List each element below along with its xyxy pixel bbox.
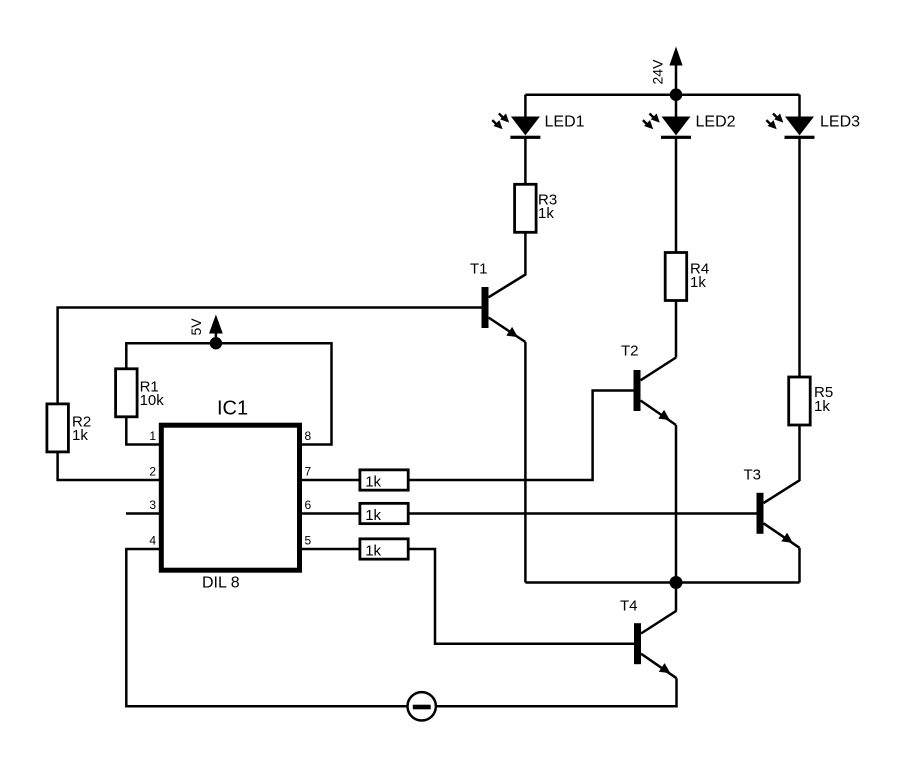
svg-text:3: 3 (149, 498, 156, 512)
wire T4 emitter to 0V (436, 678, 677, 706)
svg-text:LED1: LED1 (545, 114, 585, 131)
resistor R1 (116, 369, 138, 417)
LED LED1 (492, 114, 540, 139)
wire pin7 stub (298, 479, 360, 482)
transistor T1 (482, 275, 526, 343)
resistor R3 (515, 184, 537, 232)
svg-text:4: 4 (149, 534, 156, 548)
wire LED1 anode (524, 95, 527, 117)
resistor R5 (789, 377, 811, 425)
LED LED2 (643, 114, 691, 139)
wire T1 emitter down (524, 342, 527, 583)
wire pin6 stub (298, 512, 360, 515)
transistor T4 (634, 611, 677, 679)
svg-text:1k: 1k (538, 205, 554, 222)
wire pin3 stub (126, 512, 162, 515)
junction dot emitter rail (670, 576, 683, 589)
wire R5 to T3 collector (798, 425, 801, 481)
IC op IC1 box (161, 425, 299, 570)
svg-text:1k: 1k (365, 507, 381, 524)
wire LED2 anode (675, 95, 678, 117)
wire pin5 stub (298, 548, 360, 551)
resistor 1k pin5 (360, 539, 408, 559)
svg-text:1k: 1k (72, 427, 88, 444)
wire R2 bottom to pin2 (58, 452, 162, 480)
wire pin7 to T2 base (408, 391, 633, 481)
wire LED2 cathode to R4 (675, 137, 678, 253)
wire 0V to IC pin 4 (126, 549, 407, 706)
LED LED3 (766, 114, 814, 139)
svg-text:LED2: LED2 (696, 114, 736, 131)
junction dot 5V (210, 337, 222, 349)
junction dot 24V rail (670, 88, 683, 101)
transistor T2 (634, 358, 677, 426)
resistor 1k pin7 (360, 470, 408, 490)
wire LED1 cathode to R3 (524, 137, 527, 185)
wire bottom emitter rail (525, 581, 799, 584)
svg-text:6: 6 (305, 498, 312, 512)
wire pin6 to T3 base (408, 512, 756, 515)
svg-text:8: 8 (305, 429, 312, 443)
wire T2 emitter down (675, 425, 678, 583)
svg-text:DIL 8: DIL 8 (202, 574, 240, 591)
transistor T3 (757, 480, 800, 548)
wire T3 emitter down (798, 548, 801, 583)
svg-text:7: 7 (305, 465, 312, 479)
svg-text:1k: 1k (814, 398, 830, 415)
wire R3 to T1 collector (524, 232, 527, 275)
svg-text:5V: 5V (188, 318, 204, 336)
wire LED3 anode (798, 95, 801, 117)
resistor 1k pin6 (360, 503, 408, 523)
svg-text:24V: 24V (650, 59, 666, 85)
wire R2 top to T1 base (58, 308, 482, 405)
resistor R4 (665, 253, 687, 301)
svg-text:T3: T3 (744, 467, 762, 484)
svg-text:5: 5 (305, 534, 312, 548)
wire R1 bottom to pin1 (126, 417, 162, 445)
svg-text:1k: 1k (365, 542, 381, 559)
svg-text:10k: 10k (140, 392, 165, 409)
supply 0V circle (408, 692, 436, 720)
svg-text:LED3: LED3 (820, 114, 860, 131)
wire top 24V rail (525, 93, 799, 96)
wire 5V rail R1 to pin8 (126, 343, 331, 444)
supply 5V (209, 315, 223, 344)
resistor R2 (47, 404, 69, 452)
svg-text:1: 1 (149, 429, 156, 443)
svg-text:1k: 1k (690, 274, 706, 291)
wire LED3 cathode to R5 (798, 137, 801, 377)
wire pin5 to T4 base (408, 549, 634, 644)
svg-text:1k: 1k (365, 473, 381, 490)
supply 24V (669, 47, 682, 95)
svg-text:T4: T4 (620, 598, 638, 615)
wire junction to T4 collector (675, 583, 678, 611)
svg-text:IC1: IC1 (217, 398, 248, 420)
svg-text:T1: T1 (470, 261, 488, 278)
wire R4 to T2 collector (675, 301, 678, 358)
svg-text:T2: T2 (621, 343, 639, 360)
svg-text:2: 2 (149, 465, 156, 479)
